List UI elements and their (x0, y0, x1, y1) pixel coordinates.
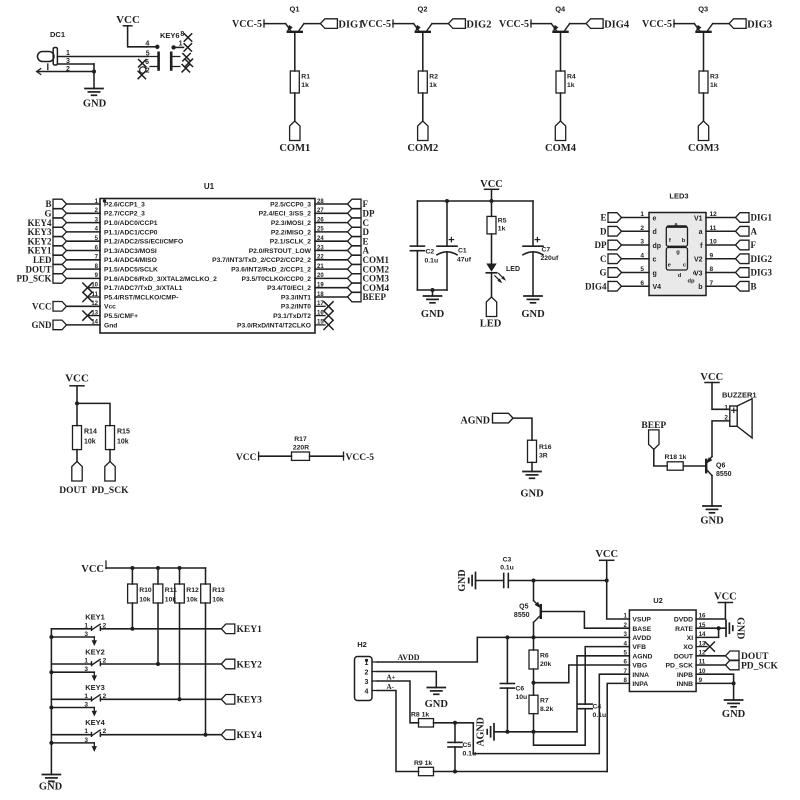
DC1 pin 2 label (66, 66, 70, 73)
switch KEY1 (92, 622, 107, 630)
svg-text:3: 3 (84, 737, 88, 744)
ic U2 body (629, 610, 696, 692)
flag C at LED3 (600, 254, 622, 264)
svg-text:VCC-5: VCC-5 (232, 19, 262, 30)
svg-text:8: 8 (624, 677, 628, 684)
svg-text:Q3: Q3 (698, 5, 708, 14)
svg-text:2: 2 (624, 622, 628, 629)
wire R3 to COM3 (703, 93, 705, 121)
resistor R16 (528, 440, 552, 462)
wire U1 pin 21 net COM2 (315, 268, 348, 270)
svg-text:E: E (600, 213, 606, 223)
U1 pin 17 name (281, 301, 324, 311)
svg-text:1: 1 (640, 211, 644, 218)
DC1 pin 3 label (66, 58, 70, 65)
svg-text:1: 1 (84, 693, 88, 700)
svg-text:1: 1 (624, 613, 628, 620)
wire KEY1 pin2 to flag (100, 628, 221, 630)
U1 pin 18 name (281, 292, 324, 302)
svg-text:KEY4: KEY4 (85, 718, 105, 727)
wire LED3 pin 7 (706, 280, 736, 287)
U2 pin XO unused (696, 642, 714, 651)
svg-text:P3.2/INT0: P3.2/INT0 (281, 304, 311, 311)
svg-text:Q2: Q2 (417, 5, 427, 14)
flag C at U1 (348, 218, 370, 228)
U2 pin 5 name (624, 650, 653, 661)
ground left of C3 (457, 569, 476, 591)
LED3 pin 9 name (694, 257, 703, 264)
svg-text:RATE: RATE (675, 626, 693, 633)
resistor R15 (106, 426, 130, 450)
svg-text:DIG1: DIG1 (751, 213, 773, 223)
wire Q4 collector to DIG4 (570, 23, 586, 25)
U2 pin 11 name (666, 659, 706, 670)
resistor R4 (556, 71, 576, 93)
svg-text:KEY1: KEY1 (237, 625, 263, 635)
svg-text:U2: U2 (653, 596, 663, 605)
flag DIG2 (448, 19, 491, 31)
U1 pin 7 name (95, 255, 157, 265)
wire U1 pin 9 net PD_SCK (67, 277, 101, 279)
flag COM2 at U1 (348, 264, 390, 274)
wire rail to R11 (157, 568, 159, 584)
svg-text:Q6: Q6 (716, 463, 725, 470)
U2 pin 7 name (624, 668, 650, 679)
U1 pin 16 name (273, 310, 324, 320)
svg-text:R3: R3 (710, 74, 719, 81)
wire Q1 base to R1 (294, 33, 296, 71)
display LED3 body (649, 213, 706, 296)
flag B at LED3 (736, 281, 757, 291)
KEY6 pin 6 unused X (139, 60, 146, 67)
KEY6 pin 1 unused X (184, 44, 191, 51)
U2 pin 13 name (683, 640, 706, 651)
svg-text:P2.1/SCLK_2: P2.1/SCLK_2 (270, 239, 312, 246)
svg-text:H2: H2 (357, 640, 367, 649)
power VCC-5 for Q1 (232, 19, 264, 30)
svg-text:VCC: VCC (714, 591, 737, 602)
power VCC-5 for Q3 (642, 19, 674, 30)
wire DC1 pin2 (37, 69, 95, 75)
svg-text:VBG: VBG (632, 663, 647, 670)
wire VCC to R17 (259, 455, 292, 457)
KEY6 pin 2 label (146, 68, 150, 75)
wire DVDD to VCC (696, 603, 725, 620)
svg-text:4: 4 (640, 252, 644, 259)
svg-text:7: 7 (624, 668, 628, 675)
wire RATE to XI (696, 628, 719, 637)
wire R12 down (178, 603, 182, 701)
svg-text:B: B (751, 281, 757, 291)
wire Q6 collector to GND (711, 476, 713, 506)
wire LED3 pin 11 (706, 225, 736, 232)
flag COM4 at U1 (348, 283, 390, 293)
svg-text:P5.4/RST/MCLKO/CMP-: P5.4/RST/MCLKO/CMP- (104, 294, 178, 301)
svg-text:INPB: INPB (677, 672, 693, 679)
switch KEY3 label (85, 683, 105, 692)
svg-text:R14: R14 (84, 429, 97, 436)
svg-text:P1.7/ADC7/TxD_3/XTAL1: P1.7/ADC7/TxD_3/XTAL1 (104, 285, 183, 292)
svg-text:D: D (600, 226, 607, 236)
svg-text:8: 8 (180, 31, 184, 38)
wire C1 branch (446, 201, 448, 246)
wire VCC to R14 (76, 403, 78, 425)
svg-text:DIG3: DIG3 (751, 268, 773, 278)
flag KEY1 (221, 624, 262, 635)
transistor Q2 label (417, 5, 427, 14)
svg-text:dp: dp (687, 279, 695, 285)
svg-text:3: 3 (84, 666, 88, 673)
wire R7 to AGND rail (533, 714, 535, 732)
wire C2 to bottom rail (416, 251, 418, 290)
wire GND to C3 (476, 580, 504, 582)
svg-text:VCC: VCC (32, 302, 52, 312)
transistor Q2 (413, 24, 432, 33)
U2 pin 10 name (677, 668, 706, 679)
flag DIG3 (729, 19, 772, 31)
flag KEY4 at U1 (27, 218, 66, 228)
wire R8 to INNA path (434, 721, 474, 725)
svg-text:6: 6 (624, 659, 628, 666)
flag VCC at U1 (32, 302, 67, 312)
flag DIG3 at LED3 (736, 268, 773, 278)
flag GND at U1 (32, 320, 67, 330)
svg-text:XO: XO (683, 644, 693, 651)
flag F at U1 (348, 199, 369, 209)
svg-text:VCC: VCC (65, 373, 89, 385)
svg-text:o: o (693, 271, 697, 277)
U2 pin 4 name (624, 640, 647, 651)
KEY2 actuator arrow (92, 672, 97, 681)
wire LED to flag (491, 273, 493, 297)
wire rail to R12 (179, 568, 181, 584)
svg-text:DP: DP (595, 240, 607, 250)
svg-text:KEY1: KEY1 (85, 612, 105, 621)
resistor R6 (529, 650, 552, 669)
svg-text:a: a (699, 229, 703, 236)
svg-text:R6: R6 (540, 653, 549, 660)
svg-text:GND: GND (83, 99, 107, 110)
svg-text:PD_SCK: PD_SCK (92, 486, 130, 496)
svg-text:DIG4: DIG4 (604, 20, 630, 31)
svg-text:VCC: VCC (116, 14, 140, 26)
svg-text:LED: LED (506, 266, 520, 273)
flag BEEP (641, 421, 666, 450)
KEY6 pin 4 contact (147, 45, 160, 49)
svg-text:P5.5/CMF+: P5.5/CMF+ (104, 313, 138, 320)
svg-text:AGND: AGND (461, 415, 490, 426)
wire VCC rail mid (417, 199, 533, 203)
svg-text:P2.2/MISO_2: P2.2/MISO_2 (271, 229, 311, 236)
power VCC-5 for Q2 (361, 19, 393, 30)
KEY4 actuator arrow (92, 743, 97, 752)
flag DIG1 at LED3 (736, 213, 773, 223)
wire U1 pin 23 net A (315, 250, 348, 252)
H2 pin 4 (365, 689, 378, 696)
wire U1 pin 26 net C (315, 222, 348, 224)
svg-text:DIG4: DIG4 (585, 281, 607, 291)
wire bottom rail mid (417, 288, 447, 292)
U1 pin 21 name (231, 264, 324, 274)
switch KEY2 label (85, 648, 105, 657)
svg-text:1: 1 (84, 728, 88, 735)
wire U1 pin 7 net LED (67, 259, 101, 261)
flag LED (480, 297, 502, 330)
svg-text:g: g (653, 270, 657, 277)
svg-text:6: 6 (640, 280, 644, 287)
KEY6 pin 4 label (145, 40, 149, 47)
svg-text:R16: R16 (539, 444, 552, 451)
svg-text:AGND: AGND (476, 717, 487, 746)
U1 pin 2 name (95, 208, 146, 218)
svg-text:GND: GND (32, 320, 53, 330)
KEY6 left bracket (150, 53, 159, 70)
wire C6 to AGND rail (506, 688, 508, 732)
svg-text:C2: C2 (426, 249, 435, 256)
svg-text:VCC: VCC (81, 564, 104, 575)
power VCC-5 at R17 (344, 452, 375, 463)
svg-text:9: 9 (710, 252, 714, 259)
wire LED3 pin 9 (706, 252, 736, 259)
wire to U2 INNA (473, 674, 629, 753)
H2 pin 2 (365, 670, 378, 677)
svg-text:GND: GND (700, 516, 724, 527)
flag DP at LED3 (595, 240, 622, 250)
wire Q3 base to R3 (703, 33, 705, 71)
svg-text:1k: 1k (498, 226, 506, 233)
KEY6 pin 5 label (146, 51, 150, 58)
U1 pin 17 unused (315, 302, 333, 311)
U1 pin 13 name (91, 310, 138, 320)
svg-text:LED: LED (480, 319, 502, 330)
svg-text:P1.1/ADC1/CCP0: P1.1/ADC1/CCP0 (104, 229, 158, 236)
wire Q6 base to R18 (683, 465, 705, 467)
wire R11 down (156, 603, 160, 666)
switch KEY4 (92, 728, 107, 736)
svg-text:P3.6/INT2/RxD_2/CCP1_2: P3.6/INT2/RxD_2/CCP1_2 (231, 267, 311, 274)
svg-text:VCC: VCC (480, 179, 503, 190)
U2 pin 3 name (624, 631, 652, 642)
svg-text:KEY6: KEY6 (160, 31, 180, 40)
flag E at U1 (348, 236, 369, 246)
resistor R12 (175, 584, 199, 604)
wire VBG step (534, 665, 630, 683)
svg-text:VCC-5: VCC-5 (361, 19, 391, 30)
U1 pin 10 unused (83, 283, 100, 292)
svg-text:P3.1/TxD/T2: P3.1/TxD/T2 (273, 313, 311, 320)
U1 pin 15 unused (315, 320, 333, 329)
flag KEY3 (221, 695, 262, 706)
svg-text:INPA: INPA (632, 681, 648, 688)
capacitor C2 (410, 246, 438, 264)
flag BEEP at U1 (348, 292, 387, 302)
svg-text:PD_SCK: PD_SCK (741, 661, 779, 671)
wire VCC stem mid (491, 189, 493, 201)
svg-text:dp: dp (653, 243, 662, 250)
KEY6 pin 2 unused X (138, 71, 145, 78)
U1 pin 25 name (271, 227, 324, 237)
wire U1 pin 25 net D (315, 231, 348, 233)
wire LED3 pin 10 (706, 239, 736, 246)
power VCC buzzer (700, 372, 723, 383)
KEY6 NC circle (140, 67, 146, 73)
svg-text:2: 2 (640, 225, 644, 232)
svg-text:COM3: COM3 (688, 143, 719, 154)
svg-text:5: 5 (640, 266, 644, 273)
svg-text:3: 3 (624, 631, 628, 638)
wire R10 down (130, 603, 134, 631)
wire LED3 pin 1 (622, 211, 650, 218)
wire R1 to COM1 (294, 93, 296, 121)
svg-text:VFB: VFB (632, 644, 646, 651)
resistor R11 (153, 584, 177, 604)
wire LED3 pin 4 (622, 252, 650, 259)
svg-text:c: c (653, 257, 657, 264)
U2 pin 16 name (674, 613, 706, 624)
svg-text:P1.4/ADC4/MISO: P1.4/ADC4/MISO (104, 257, 157, 264)
transistor Q1 label (289, 5, 299, 14)
svg-text:GND: GND (39, 782, 63, 793)
wire R4 to COM4 (560, 93, 562, 121)
transistor Q3 label (698, 5, 708, 14)
H2 pin 3 (365, 679, 378, 686)
svg-text:1k: 1k (301, 82, 309, 89)
wire LED3 pin 6 (622, 280, 650, 287)
wire Q5 collector to AVDD node (533, 622, 535, 637)
wire AGND jog to C4 (534, 732, 586, 745)
wire INNB stub (696, 681, 736, 685)
svg-text:1: 1 (84, 622, 88, 629)
wire KEY4 pin2 to flag (100, 734, 221, 736)
svg-text:C1: C1 (458, 248, 467, 255)
wire DOUT stub (696, 655, 725, 657)
ground under H2 (425, 688, 449, 711)
ground under C1 C2 (421, 296, 445, 320)
svg-text:COM4: COM4 (545, 143, 577, 154)
wire R6 to node VBG (532, 669, 536, 695)
svg-text:P3.7/INT3/TxD_2/CCP2/CCP2_2: P3.7/INT3/TxD_2/CCP2/CCP2_2 (212, 257, 311, 264)
ground AGND symbol (476, 717, 495, 746)
transistor Q4 label (555, 5, 566, 14)
svg-text:C5: C5 (463, 742, 472, 749)
flag DOUT row3 (59, 462, 87, 497)
wire AVDD to R6 (533, 637, 535, 650)
svg-text:10k: 10k (186, 597, 198, 604)
flag COM3 at U1 (348, 274, 390, 284)
power jack DC1 label (50, 30, 65, 39)
KEY6 right upper X (183, 54, 190, 61)
svg-text:P3.3/INT1: P3.3/INT1 (281, 294, 311, 301)
svg-text:0.1u: 0.1u (500, 565, 514, 572)
wire VCC stem row3 (75, 386, 79, 406)
U2 pin 14 name (687, 631, 706, 642)
resistor R10 (128, 584, 152, 604)
svg-text:BASE: BASE (632, 626, 651, 633)
wire Q1 collector to DIG1 (304, 23, 320, 25)
flag DOUT at U2 (726, 651, 770, 662)
wire U1 pin 4 net KEY3 (67, 231, 101, 233)
flag B at U1 (45, 199, 66, 209)
svg-text:P3.0/RxD/INT4/T2CLKO: P3.0/RxD/INT4/T2CLKO (237, 322, 311, 329)
wire R15 to PD_SCK (109, 450, 111, 462)
svg-text:1: 1 (179, 41, 183, 48)
KEY6 pin 8 label (180, 31, 184, 38)
svg-text:g: g (676, 250, 680, 256)
wire C5 branch (454, 723, 456, 743)
svg-text:V2: V2 (694, 257, 703, 264)
U1 pin 15 name (237, 320, 324, 330)
wire Q3 collector to DIG3 (713, 23, 729, 25)
wire R2 to COM2 (422, 93, 424, 121)
svg-text:e: e (653, 215, 657, 222)
svg-text:R15: R15 (117, 429, 130, 436)
buzzer BUZZER1 label (722, 391, 757, 400)
svg-text:AVDD: AVDD (632, 635, 651, 642)
U1 pin 23 name (249, 245, 325, 255)
flag KEY4 (221, 730, 262, 741)
U2 pin 15 name (675, 622, 706, 633)
LED3 pin 5 name (653, 270, 657, 277)
svg-text:P3.5/T0CLKO/CCP0_2: P3.5/T0CLKO/CCP0_2 (241, 276, 311, 283)
svg-text:VSUP: VSUP (632, 617, 651, 624)
flag COM3 (688, 121, 719, 154)
wire C1 to bottom rail (446, 252, 448, 290)
resistor R7 (529, 695, 553, 714)
wire VCC to buzzer pin1 (712, 383, 730, 410)
U1 pin 16 unused (315, 311, 333, 320)
power VCC at U2 DVDD (714, 591, 737, 602)
wire R5 to LED (491, 234, 493, 264)
wire VCC to U2 VSUP (607, 581, 630, 620)
wire bus to KEY3 pin1 (51, 693, 90, 700)
wire DC1 pin3 (48, 64, 94, 70)
wire VCC-5 to Q2 emitter (393, 23, 414, 25)
svg-text:R4: R4 (567, 74, 576, 81)
LED3 pin 6 name (653, 284, 662, 291)
svg-text:GND: GND (457, 569, 468, 591)
wire R14 to DOUT (76, 450, 78, 462)
diode LED D1 (486, 264, 520, 285)
svg-text:KEY3: KEY3 (237, 696, 263, 706)
svg-text:GND: GND (722, 709, 746, 720)
svg-text:8550: 8550 (514, 612, 530, 619)
transistor Q6 (704, 457, 731, 478)
wire INNB to GND (733, 683, 735, 700)
svg-text:220R: 220R (293, 444, 309, 451)
svg-text:P2.7/CCP2_3: P2.7/CCP2_3 (104, 211, 145, 218)
ground under C7 (521, 296, 545, 320)
svg-text:V1: V1 (694, 215, 703, 222)
flag DIG4 (586, 19, 630, 31)
resistor R18 (665, 454, 687, 470)
KEY3 actuator arrow (92, 708, 97, 717)
svg-text:DIG3: DIG3 (747, 20, 772, 31)
wire LED3 pin 8 (706, 266, 736, 273)
svg-text:DIG2: DIG2 (466, 20, 491, 31)
wire C7 to GND (532, 252, 534, 296)
wire bus to KEY2 pin3 (51, 666, 94, 673)
wire U1 pin 1 net B (67, 203, 101, 205)
svg-text:VCC-5: VCC-5 (642, 19, 672, 30)
svg-text:P2.4/ECI_3/SS_2: P2.4/ECI_3/SS_2 (259, 211, 312, 218)
wire U1 pin 18 net BEEP (315, 296, 348, 298)
LED3 pin 12 name (694, 215, 703, 222)
resistor R14 (73, 426, 97, 450)
buzzer BUZZER1 (724, 399, 752, 438)
U1 pin 22 name (212, 255, 324, 265)
KEY6 pin 6 label (145, 59, 149, 66)
svg-text:DOUT: DOUT (674, 653, 694, 660)
